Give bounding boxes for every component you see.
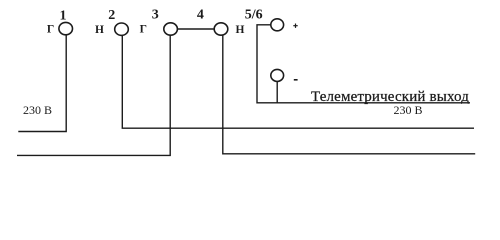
svg-text:Н: Н (95, 24, 104, 36)
svg-text:4: 4 (197, 8, 204, 23)
svg-text:5/6: 5/6 (245, 7, 263, 22)
svg-text:2: 2 (108, 8, 115, 23)
svg-text:3: 3 (152, 8, 159, 23)
svg-text:Г: Г (140, 23, 147, 35)
svg-text:230 В: 230 В (393, 103, 422, 117)
svg-text:1: 1 (60, 9, 67, 24)
svg-text:Н: Н (236, 24, 245, 36)
svg-text:Телеметрический выход: Телеметрический выход (311, 89, 469, 105)
svg-text:230 В: 230 В (23, 103, 52, 117)
svg-text:Г: Г (47, 23, 54, 35)
